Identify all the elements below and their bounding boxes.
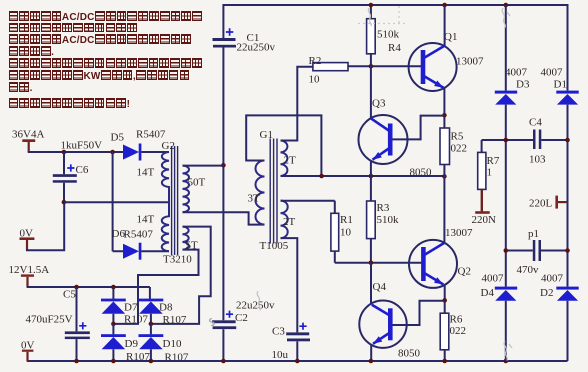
svg-text:4007: 4007 (482, 273, 505, 285)
wire R2 to Q1 base (348, 65, 423, 67)
resistor R7 (478, 140, 500, 189)
node Q1 emitter / Q3 base (442, 113, 447, 118)
capacitor C4 (482, 117, 568, 166)
svg-text:C6: C6 (76, 164, 89, 176)
svg-text:D2: D2 (540, 287, 553, 299)
wire Q1 emitter to R5 (443, 88, 445, 128)
terminal 12V1.5A (9, 264, 50, 288)
node C1/50T junction (221, 163, 226, 168)
node C6/0V junction (62, 200, 67, 205)
svg-text:103: 103 (529, 154, 546, 166)
capacitor C6 (53, 152, 89, 202)
wire Q4 emitter to bottom rail (370, 344, 372, 361)
wire 2T upper top to R2 (281, 67, 313, 141)
wire Q3 collector riser (370, 66, 372, 118)
transformer T3210 primary winding G2 14T+14T (137, 140, 175, 251)
terminal 220N (472, 189, 497, 226)
wire 12V rail (27, 287, 150, 299)
svg-text:13007: 13007 (456, 56, 484, 68)
node bottom rail / C5 (74, 359, 79, 364)
node bottom rail / D10 (149, 359, 154, 364)
svg-text:8050: 8050 (398, 348, 421, 360)
svg-text:G1: G1 (260, 129, 273, 141)
svg-text:C2: C2 (235, 312, 248, 324)
transformer T3210 secondary 5T (163, 227, 198, 266)
diode D2 (540, 273, 579, 301)
wire C1 to C2 column (222, 48, 224, 321)
svg-text:220L: 220L (529, 198, 553, 210)
node D8/D10 midpoint (149, 322, 154, 327)
wire mid rail (281, 175, 445, 177)
diode D8 (139, 299, 187, 326)
svg-text:D3: D3 (516, 79, 530, 91)
wire Q1 collector to rail (444, 5, 446, 46)
svg-text:220N: 220N (472, 214, 497, 226)
resistor R6 (440, 313, 466, 361)
svg-text:510k: 510k (377, 29, 400, 41)
wire 50T top to C1 column (183, 165, 224, 167)
svg-text:Q4: Q4 (373, 281, 387, 293)
svg-text:4007: 4007 (541, 273, 564, 285)
svg-text:R107: R107 (124, 314, 148, 326)
svg-text:13007: 13007 (445, 227, 473, 239)
svg-text:510k: 510k (377, 214, 400, 226)
wire Q2 collector to mid rail (443, 177, 445, 244)
svg-text:10: 10 (309, 74, 321, 86)
node 12V rail / D7 (111, 285, 116, 290)
node C4 row / D1 column (565, 138, 570, 143)
wire Q2 emitter to R6 (444, 285, 446, 313)
node bottom rail / D4 (504, 359, 509, 364)
wire 0V tap to G2 center (64, 201, 169, 203)
wire R1/R3 row to Q2 base (335, 262, 424, 264)
wire 36V branch down to D6 (113, 152, 124, 251)
node mid rail / R3 (369, 174, 374, 179)
svg-text:8050: 8050 (410, 167, 433, 179)
wire D3 column (505, 5, 507, 287)
svg-text:4007: 4007 (505, 67, 528, 79)
wire 50T bottom to 3T bottom (183, 212, 265, 224)
node p1 row / D4 column (504, 248, 509, 253)
node R3/R1/Q4 junction (369, 260, 374, 265)
svg-text:R107: R107 (163, 314, 187, 326)
svg-text:R1: R1 (340, 214, 353, 226)
transformer T1005 secondary 2T lower (281, 201, 296, 239)
svg-text:14T: 14T (137, 214, 155, 226)
svg-text:R4: R4 (388, 42, 401, 54)
node top rail / D3 branch (504, 3, 509, 8)
svg-text:022: 022 (451, 143, 468, 155)
node top rail / R4 (369, 3, 374, 8)
svg-text:470v: 470v (517, 264, 540, 276)
wire 2T lower bottom to C3 (281, 238, 298, 332)
label 1kuF50V (61, 140, 103, 152)
svg-text:10: 10 (340, 227, 352, 239)
diode D3 (495, 67, 530, 105)
wire 2T lower top to R1 (281, 201, 335, 214)
wire 5T top route to D8 node (151, 227, 211, 324)
wire D5 cathode to G2 top (141, 151, 169, 153)
svg-text:D10: D10 (163, 338, 182, 350)
terminal 220L (529, 196, 568, 210)
svg-text:1kuF50V: 1kuF50V (61, 140, 103, 152)
svg-text:Q1: Q1 (444, 31, 457, 43)
svg-text:R2: R2 (309, 55, 322, 67)
svg-text:D8: D8 (159, 302, 173, 314)
svg-text:Q3: Q3 (372, 98, 386, 110)
capacitor C2 (212, 300, 275, 362)
wire Q3 base jog (390, 116, 444, 140)
svg-text:D1: D1 (554, 79, 567, 91)
node bottom rail / C3 (295, 359, 300, 364)
transistor Q2 (409, 227, 473, 288)
diode D10 (139, 324, 189, 364)
wire D6 cathode to G2 bottom (141, 250, 169, 252)
node 36V/C6 (62, 150, 67, 155)
capacitor C3 (272, 323, 311, 361)
svg-text:022: 022 (450, 325, 467, 337)
node mid rail / 3T (319, 174, 324, 179)
resistor R2 (309, 55, 349, 86)
svg-text:T3210: T3210 (163, 254, 192, 266)
node C4 row / D3 column (504, 138, 509, 143)
transistor Q3 (359, 98, 433, 179)
terminal 36V4A (12, 129, 44, 153)
terminal 0V bottom (21, 340, 35, 362)
svg-text:C4: C4 (529, 117, 542, 129)
resistor R4 (367, 5, 402, 66)
svg-text:G2: G2 (162, 140, 175, 152)
svg-text:R6: R6 (450, 314, 463, 326)
wire 3T top loop to mid rail (246, 115, 321, 176)
svg-text:1: 1 (487, 167, 493, 179)
transformer T1005 primary 3T (248, 129, 289, 252)
node bottom rail / R6 (442, 359, 447, 364)
smudge artifacts (210, 6, 512, 361)
node bottom rail / C2 (221, 359, 226, 364)
node top rail / Q1 collector (442, 3, 447, 8)
capacitor C1 (213, 28, 276, 53)
svg-text:22u250v: 22u250v (236, 300, 275, 312)
svg-text:p1: p1 (528, 228, 539, 240)
node mid rail / R5 (442, 174, 447, 179)
svg-text:2T: 2T (284, 155, 297, 167)
svg-text:470uF25V: 470uF25V (26, 314, 73, 326)
svg-text:R3: R3 (377, 202, 390, 214)
wire Q3 emitter to mid rail (370, 161, 372, 176)
wire D1 column (567, 105, 569, 287)
transistor Q1 (409, 31, 484, 91)
resistor R3 (367, 176, 399, 263)
node p1 row / D2 column (565, 248, 570, 253)
svg-text:14T: 14T (137, 167, 155, 179)
node 36V/D6 branch (110, 150, 115, 155)
svg-text:R7: R7 (487, 155, 500, 167)
terminal 0V middle (20, 228, 35, 251)
transformer T1005 secondary 2T upper (281, 141, 297, 176)
svg-text:D9: D9 (125, 338, 139, 350)
wire 5T bottom route to D7 node (113, 250, 198, 324)
wire 36V row (28, 151, 124, 153)
diode D9 (101, 324, 150, 363)
wire top supply rail (223, 5, 567, 91)
wire bottom rail (27, 301, 568, 361)
svg-text:0V: 0V (21, 340, 35, 352)
transformer T1005 core (270, 139, 277, 244)
node bottom rail / Q4 emitter (369, 359, 374, 364)
svg-text:R5407: R5407 (124, 229, 154, 241)
svg-text:3T: 3T (248, 193, 261, 205)
diode D6 (112, 228, 154, 260)
diode D1 (541, 67, 579, 105)
svg-text:D7: D7 (124, 302, 138, 314)
resistor R5 (440, 128, 467, 177)
svg-text:C3: C3 (272, 326, 285, 338)
diode D4 (481, 273, 518, 362)
capacitor C5 (26, 287, 90, 361)
diode D7 (101, 287, 148, 326)
svg-text:R5: R5 (451, 131, 464, 143)
svg-text:R5407: R5407 (136, 129, 166, 141)
node Q2 emitter / Q4 base (442, 298, 447, 303)
transistor Q4 (359, 281, 420, 360)
svg-text:4007: 4007 (541, 67, 564, 79)
node bottom rail / D9 (111, 359, 116, 364)
transformer T3210 core (172, 146, 178, 255)
svg-text:22u250v: 22u250v (237, 42, 276, 54)
node R4/R2/Q3 junction (369, 64, 374, 69)
capacitor p1 (506, 228, 568, 276)
svg-text:0V: 0V (20, 228, 34, 240)
svg-text:D5: D5 (111, 132, 125, 144)
node D7/D9 midpoint (111, 322, 116, 327)
svg-text:Q2: Q2 (458, 266, 471, 278)
diode D5 (111, 129, 166, 161)
note paragraph (Chinese description text) (8, 10, 248, 110)
svg-text:C5: C5 (63, 289, 76, 301)
resistor R1 (331, 213, 353, 262)
node 12V rail / C5 (74, 285, 79, 290)
svg-text:2T: 2T (283, 216, 296, 228)
svg-text:12V1.5A: 12V1.5A (9, 264, 50, 276)
transformer T3210 secondary 50T (183, 166, 206, 213)
svg-text:50T: 50T (188, 177, 206, 189)
wire Q4 collector riser (370, 263, 372, 305)
svg-text:36V4A: 36V4A (12, 129, 44, 141)
svg-text:D4: D4 (481, 287, 495, 299)
svg-text:10u: 10u (272, 349, 289, 361)
wire 0V to C6 node (26, 202, 64, 251)
wire Q4 base jog (390, 301, 445, 325)
